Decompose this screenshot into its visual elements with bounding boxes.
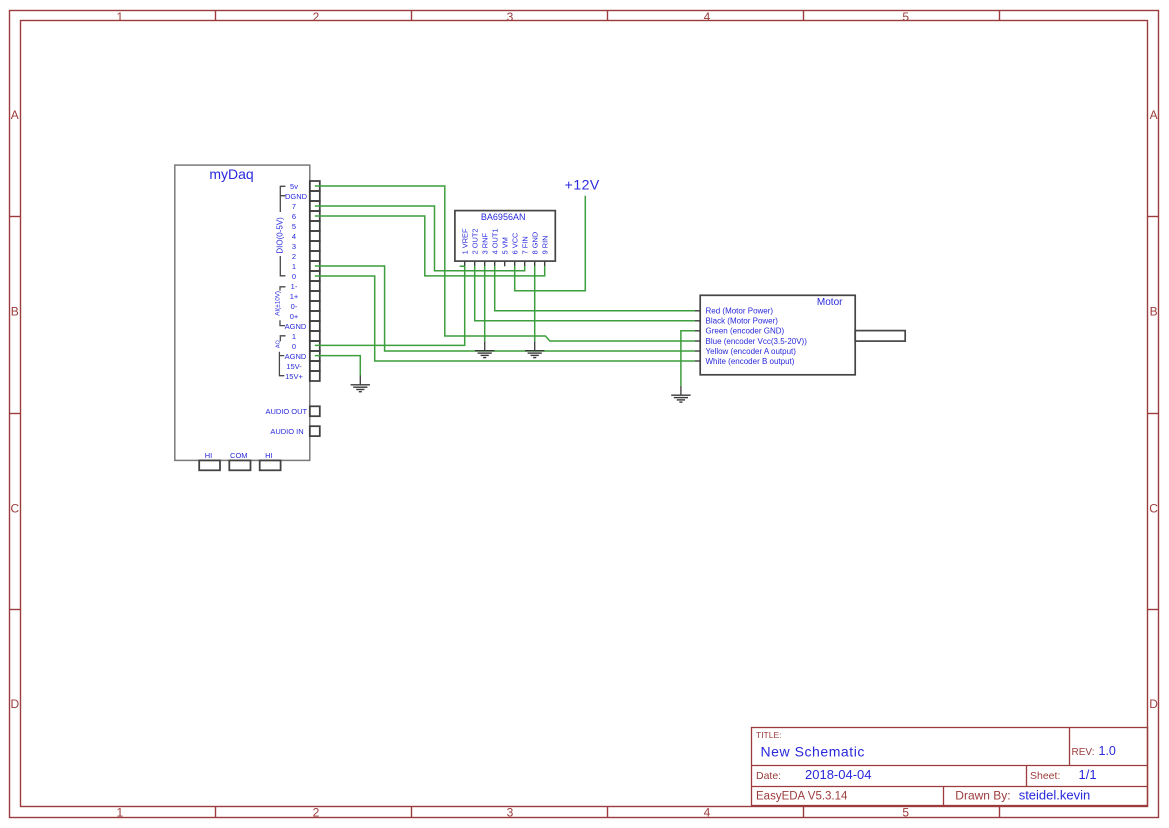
svg-text:1-: 1- [291,282,298,291]
svg-text:4: 4 [704,805,711,819]
svg-text:Date:: Date: [756,770,781,782]
svg-text:1.0: 1.0 [1099,744,1116,758]
svg-text:BA6956AN: BA6956AN [481,212,526,222]
svg-text:5 VM: 5 VM [500,237,509,254]
svg-text:1: 1 [116,805,123,819]
svg-text:steidel.kevin: steidel.kevin [1019,788,1091,803]
svg-text:DGND: DGND [285,192,308,201]
svg-text:1: 1 [116,10,123,24]
svg-text:Sheet:: Sheet: [1030,770,1060,782]
svg-text:2: 2 [292,252,296,261]
svg-text:5: 5 [292,222,296,231]
svg-text:Red (Motor Power): Red (Motor Power) [706,307,774,316]
svg-text:1 VREF: 1 VREF [460,228,469,254]
svg-text:REV:: REV: [1072,747,1095,758]
svg-text:D: D [10,697,19,711]
svg-text:15V-: 15V- [286,362,302,371]
svg-text:4 OUT1: 4 OUT1 [490,229,499,255]
svg-text:1: 1 [292,332,296,341]
svg-text:B: B [11,305,19,319]
svg-text:1+: 1+ [290,292,299,301]
svg-text:3: 3 [292,242,296,251]
svg-text:0-: 0- [291,302,298,311]
svg-text:B: B [1150,305,1158,319]
svg-text:A: A [11,108,19,122]
svg-text:6: 6 [292,212,296,221]
svg-text:9 RIN: 9 RIN [540,235,549,254]
svg-text:2: 2 [313,805,320,819]
svg-text:AI(±10V): AI(±10V) [275,291,282,316]
svg-text:COM: COM [230,451,248,460]
svg-text:Yellow (encoder A output): Yellow (encoder A output) [706,347,797,356]
svg-text:D: D [1149,697,1158,711]
svg-text:3: 3 [507,10,514,24]
svg-text:AUDIO OUT: AUDIO OUT [265,407,307,416]
svg-text:Green (encoder GND): Green (encoder GND) [706,327,785,336]
svg-text:4: 4 [704,10,711,24]
svg-text:Motor: Motor [817,297,843,308]
svg-text:Blue (encoder Vcc(3.5-20V)): Blue (encoder Vcc(3.5-20V)) [706,337,808,346]
svg-text:myDaq: myDaq [209,166,253,182]
svg-text:TITLE:: TITLE: [756,730,782,740]
svg-text:0+: 0+ [290,312,299,321]
svg-text:7: 7 [292,202,296,211]
svg-text:3: 3 [507,805,514,819]
svg-text:AUDIO IN: AUDIO IN [270,427,303,436]
svg-text:New Schematic: New Schematic [761,744,865,760]
svg-text:HI: HI [265,451,273,460]
svg-text:2018-04-04: 2018-04-04 [805,767,872,782]
svg-text:Drawn By:: Drawn By: [955,789,1010,803]
svg-text:AGND: AGND [285,352,307,361]
svg-text:0: 0 [292,272,296,281]
svg-text:1/1: 1/1 [1079,767,1097,782]
svg-text:2 OUT2: 2 OUT2 [470,229,479,255]
svg-text:5: 5 [902,805,909,819]
svg-text:C: C [10,501,19,515]
svg-text:6 VCC: 6 VCC [510,232,519,254]
svg-text:3 RNF: 3 RNF [480,233,489,255]
svg-text:White (encoder B output): White (encoder B output) [706,357,795,366]
svg-text:15V+: 15V+ [285,372,303,381]
svg-text:8 GND: 8 GND [530,232,539,255]
svg-text:2: 2 [313,10,320,24]
svg-text:+12V: +12V [565,177,600,193]
svg-text:EasyEDA V5.3.14: EasyEDA V5.3.14 [756,791,848,803]
svg-text:5: 5 [902,10,909,24]
svg-text:C: C [1149,501,1158,515]
svg-text:AO: AO [276,340,282,349]
svg-text:7 FIN: 7 FIN [520,236,529,254]
svg-text:1: 1 [292,262,296,271]
svg-text:DIO(0-5V): DIO(0-5V) [275,217,284,254]
svg-text:Black (Motor Power): Black (Motor Power) [706,317,779,326]
svg-text:HI: HI [205,451,213,460]
svg-text:4: 4 [292,232,296,241]
svg-text:A: A [1150,108,1158,122]
svg-text:5v: 5v [290,182,298,191]
svg-text:0: 0 [292,342,296,351]
svg-text:AGND: AGND [285,322,307,331]
